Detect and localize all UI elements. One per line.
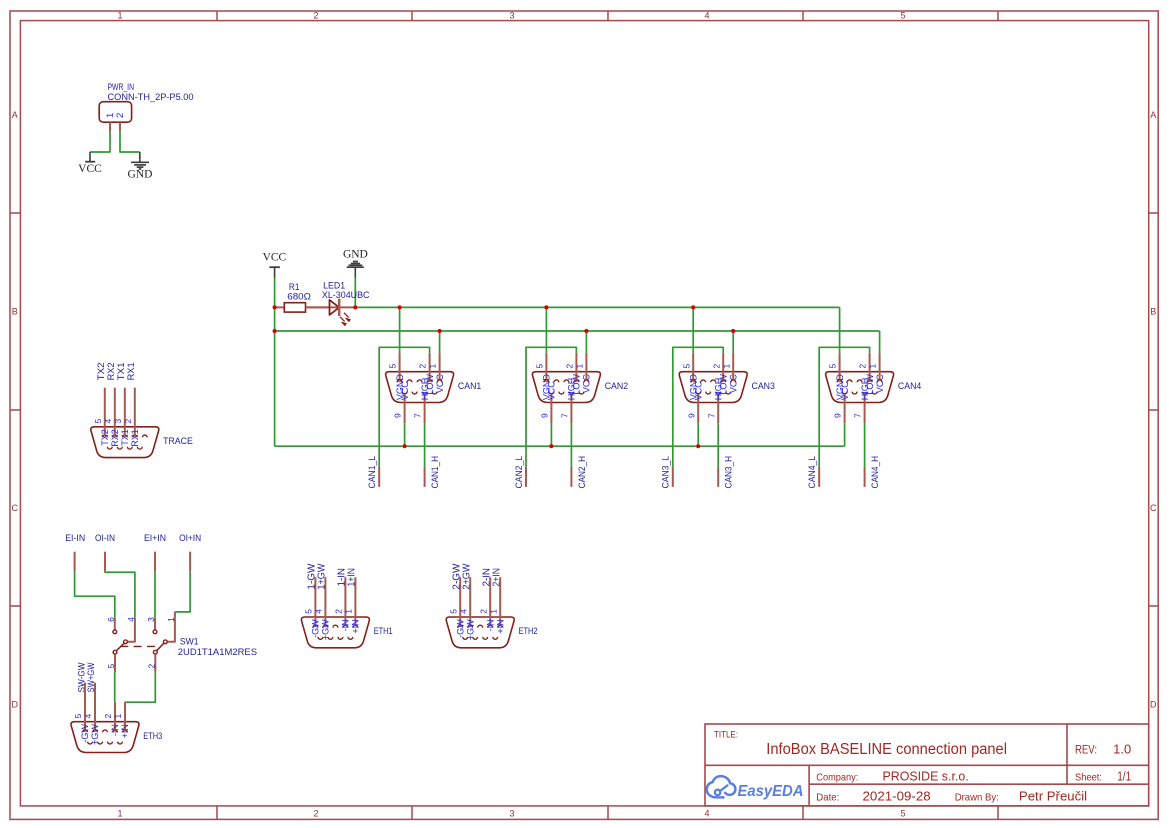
svg-text:4: 4 (458, 609, 468, 614)
svg-text:2UD1T1A1M2RES: 2UD1T1A1M2RES (178, 647, 257, 658)
CAN4 pin 9 VCC (833, 381, 850, 423)
svg-text:9: 9 (833, 413, 843, 418)
svg-text:OI+IN: OI+IN (179, 533, 201, 544)
ETH3 female contact arc top pin 4 (93, 730, 98, 732)
svg-text:CAN4_L: CAN4_L (807, 456, 817, 489)
svg-text:5: 5 (73, 713, 83, 718)
CAN2 pin 9 VCC (540, 381, 557, 423)
wire CAN2_H net (570, 423, 572, 467)
TRACE pin 5 TX2 (93, 388, 110, 446)
svg-text:-GW: -GW (311, 619, 321, 638)
svg-text:3: 3 (146, 617, 156, 622)
CAN1 female contact arc bottom pin 6 (432, 392, 437, 394)
CAN1 female contact arc top pin 4 (407, 380, 412, 382)
svg-text:7: 7 (413, 413, 423, 418)
svg-text:1: 1 (166, 617, 176, 622)
svg-text:PROSIDE s.r.o.: PROSIDE s.r.o. (883, 770, 969, 784)
svg-text:PWR_IN: PWR_IN (108, 82, 135, 92)
net stub CAN3_H (717, 467, 719, 487)
svg-text:1: 1 (488, 609, 498, 614)
junction VCC rail CAN3 (731, 329, 735, 333)
CAN2 female contact arc bottom pin 7 (569, 392, 574, 394)
connector ETH1 D-sub body (301, 617, 392, 648)
svg-text:6: 6 (106, 617, 116, 622)
svg-text:1: 1 (344, 609, 354, 614)
svg-text:C: C (12, 503, 19, 513)
svg-text:GND: GND (343, 249, 368, 261)
CAN4 female contact arc top pin 1 (877, 380, 882, 382)
ETH1 pin 4 +GW (314, 577, 331, 640)
CAN4 female contact arc top pin 4 (847, 380, 852, 382)
svg-text:VCC: VCC (400, 381, 410, 401)
svg-text:B: B (1150, 307, 1156, 317)
CAN4 pin 1 VCC (868, 353, 885, 393)
CAN2 female contact arc top pin 4 (554, 380, 559, 382)
junction LED cathode GND (353, 305, 357, 309)
svg-text:VCC: VCC (840, 381, 850, 401)
svg-text:1/1: 1/1 (1117, 770, 1131, 784)
TRACE pin 4 RX2 (103, 388, 120, 447)
svg-text:CAN1_L: CAN1_L (367, 456, 377, 489)
svg-text:-IN: -IN (341, 619, 351, 631)
svg-text:VCC: VCC (728, 374, 738, 394)
net stub EI-IN (74, 552, 76, 572)
CAN2 pin 7 HIGH (560, 378, 577, 423)
svg-text:9: 9 (540, 413, 550, 418)
wire GND rail to CAN4 pin5 (839, 307, 841, 352)
ETH1 female contact arc bottom pin 7 (338, 637, 343, 639)
wire OI-IN to SW1 pin4 (105, 571, 135, 618)
SW1 pin 5 (106, 654, 116, 672)
svg-text:9: 9 (686, 413, 696, 418)
svg-text:2: 2 (115, 113, 126, 118)
svg-text:2: 2 (103, 713, 113, 718)
TRACE female contact arc top pin 5 (102, 435, 107, 437)
ETH3 female contact arc bottom pin 8 (98, 742, 103, 744)
svg-text:CAN1_H: CAN1_H (430, 456, 440, 489)
ETH3 female contact arc bottom pin 6 (118, 742, 123, 744)
svg-text:1: 1 (113, 713, 123, 718)
wire EI+IN to SW1 pin3 (154, 571, 156, 618)
svg-text:Petr Přeučil: Petr Přeučil (1019, 789, 1087, 804)
svg-text:HIGH: HIGH (420, 378, 430, 401)
ETH1 female contact arc top pin 4 (323, 625, 328, 627)
connector ETH3 D-sub body (71, 722, 162, 753)
svg-text:1: 1 (868, 363, 878, 368)
wire EI-IN to SW1 pin6 (75, 571, 115, 618)
ETH2 female contact arc top pin 2 (488, 625, 493, 627)
CAN1 female contact arc top pin 1 (437, 380, 442, 382)
TRACE pin 3 TX1 (113, 388, 130, 446)
svg-text:ETH2: ETH2 (519, 626, 538, 637)
svg-text:CONN-TH_2P-P5.00: CONN-TH_2P-P5.00 (108, 92, 194, 102)
CAN4 pin 5 VGND (828, 353, 845, 400)
wire VCC rail to CAN3 pin1 (732, 331, 734, 353)
svg-text:5: 5 (900, 11, 905, 21)
svg-text:2: 2 (478, 609, 488, 614)
TRACE female contact arc top pin 4 (112, 435, 117, 437)
junction GND rail CAN2 (544, 305, 548, 309)
svg-text:VCC: VCC (582, 374, 592, 394)
wire GND rail to CAN2 pin5 (545, 307, 547, 352)
TRACE female contact arc top pin 1 (142, 435, 147, 437)
connector CAN4 D-sub body (826, 372, 922, 403)
net stub CAN2_L (525, 467, 527, 487)
CAN4 female contact arc bottom pin 7 (862, 392, 867, 394)
svg-text:5: 5 (900, 809, 905, 819)
CAN2 pin 1 VCC (575, 353, 592, 393)
EasyEDA logo (707, 776, 804, 800)
svg-text:ETH1: ETH1 (374, 626, 393, 637)
CAN4 female contact arc bottom pin 8 (852, 392, 857, 394)
svg-text:ETH3: ETH3 (143, 731, 162, 742)
wire OI+IN to SW1 pin1 (175, 571, 190, 612)
CAN3 female contact arc bottom pin 7 (716, 392, 721, 394)
svg-text:7: 7 (706, 413, 716, 418)
CAN4 female contact arc top pin 5 (837, 380, 842, 382)
ETH1 female contact arc top pin 2 (343, 625, 348, 627)
svg-text:3: 3 (113, 419, 123, 424)
svg-text:4: 4 (83, 713, 93, 718)
ETH2 female contact arc top pin 1 (498, 625, 503, 627)
svg-text:C: C (1150, 503, 1157, 513)
CAN1 female contact arc top pin 3 (417, 380, 422, 382)
svg-text:-IN: -IN (485, 619, 495, 631)
svg-text:CAN3_L: CAN3_L (661, 456, 671, 489)
connector TRACE D-sub body (91, 427, 193, 458)
CAN3 female contact arc bottom pin 6 (726, 392, 731, 394)
svg-text:4: 4 (704, 11, 709, 21)
junction R1-VCC (273, 305, 277, 309)
TRACE female contact arc bottom pin 7 (127, 447, 132, 449)
svg-text:RX1: RX1 (130, 429, 140, 447)
wire GND rail horizontal (355, 306, 839, 308)
CAN4 pin 2 LOW (858, 353, 875, 395)
wire CAN2_L net (526, 347, 576, 467)
svg-text:+IN: +IN (120, 724, 130, 738)
CAN2 female contact arc top pin 3 (564, 380, 569, 382)
ETH2 female contact arc top pin 5 (458, 625, 463, 627)
CAN1 pin 1 VCC (428, 353, 445, 393)
svg-text:2: 2 (313, 809, 318, 819)
CAN3 pin 5 VGND (681, 353, 698, 400)
ETH2 female contact arc top pin 4 (468, 625, 473, 627)
ETH3 female contact arc top pin 2 (113, 730, 118, 732)
svg-text:CAN4: CAN4 (898, 381, 921, 392)
svg-text:2: 2 (858, 363, 868, 368)
svg-text:VCC: VCC (875, 374, 885, 394)
CAN3 pin 1 VCC (721, 353, 738, 393)
svg-text:1.0: 1.0 (1113, 742, 1131, 756)
CAN2 pin 5 VGND (535, 353, 552, 400)
junction VCC rail CAN2 (584, 329, 588, 333)
ETH2 female contact arc bottom pin 6 (493, 637, 498, 639)
junction VCC rail CAN1 (438, 329, 442, 333)
svg-text:4: 4 (314, 609, 324, 614)
wire PWR_IN pin1 to VCC (90, 131, 110, 152)
ETH2 pin 1 +IN (488, 577, 505, 633)
CAN3 female contact arc bottom pin 8 (706, 392, 711, 394)
wire VCC rail to CAN1 pin1 (439, 331, 441, 353)
wire GND rail to CAN1 pin5 (399, 307, 401, 352)
ground GND at LED (343, 249, 368, 278)
svg-text:2: 2 (334, 609, 344, 614)
svg-text:4: 4 (126, 617, 136, 622)
wire CAN2 pin9 to VCC bottom rail (550, 423, 552, 446)
svg-text:1: 1 (721, 363, 731, 368)
svg-text:-GW: -GW (80, 724, 90, 743)
svg-text:3: 3 (509, 11, 514, 21)
svg-text:HIGH: HIGH (860, 378, 870, 401)
svg-text:2: 2 (123, 419, 133, 424)
svg-text:680Ω: 680Ω (287, 291, 311, 302)
svg-text:+GW: +GW (321, 619, 331, 640)
SW1 pole B moving contact (153, 643, 163, 654)
SW1 pin 2 (147, 654, 157, 673)
CAN4 female contact arc bottom pin 6 (872, 392, 877, 394)
CAN3 pin 7 HIGH (706, 378, 723, 423)
switch SW1 2UD1T1A1M2RES (178, 636, 257, 658)
svg-text:SW1: SW1 (180, 636, 199, 647)
net stub CAN1_L (378, 467, 380, 487)
svg-text:5: 5 (388, 363, 398, 368)
CAN3 female contact arc top pin 1 (731, 380, 736, 382)
net stub CAN3_L (672, 467, 674, 487)
wire CAN3_H net (717, 423, 719, 467)
wire CAN1_L net (379, 347, 429, 467)
svg-text:D: D (12, 700, 19, 710)
wire PWR_IN pin2 to GND (120, 131, 140, 152)
TRACE female contact arc bottom pin 6 (137, 447, 142, 449)
CAN4 female contact arc top pin 2 (867, 380, 872, 382)
junction VCC rail left (273, 329, 277, 333)
CAN2 female contact arc bottom pin 9 (549, 392, 554, 394)
ETH1 female contact arc top pin 1 (353, 625, 358, 627)
wire CAN1_H net (424, 423, 426, 467)
svg-text:+IN: +IN (495, 619, 505, 633)
ETH1 female contact arc top pin 3 (333, 625, 338, 627)
TRACE female contact arc top pin 3 (122, 435, 127, 437)
junction GND rail CAN1 (398, 305, 402, 309)
svg-text:VCC: VCC (547, 381, 557, 401)
wire VCC rail to CAN2 pin1 (585, 331, 587, 353)
title block (705, 724, 1149, 806)
svg-text:CAN3: CAN3 (752, 381, 775, 392)
junction VCC bottom rail CAN1 (403, 444, 407, 448)
net stub CAN2_H (570, 467, 572, 487)
ETH1 female contact arc bottom pin 9 (318, 637, 323, 639)
wire VCC vertical feed (274, 278, 276, 447)
SW1 pin 1 (163, 612, 176, 644)
ETH1 female contact arc bottom pin 6 (348, 637, 353, 639)
svg-text:7: 7 (560, 413, 570, 418)
svg-text:-IN: -IN (110, 724, 120, 736)
svg-text:EasyEDA: EasyEDA (738, 783, 804, 800)
wire CAN3 pin9 to VCC bottom rail (697, 423, 699, 446)
ETH3 female contact arc top pin 3 (103, 730, 108, 732)
svg-text:VCC: VCC (78, 163, 102, 175)
connector CAN2 D-sub body (532, 372, 628, 403)
junction VCC bottom rail CAN2 (549, 444, 553, 448)
SW1 pin 4 (124, 617, 137, 644)
net stub CAN4_L (818, 467, 820, 487)
svg-text:VCC: VCC (435, 374, 445, 394)
connector CAN1 D-sub body (386, 372, 482, 403)
ETH3 pin 1 +IN (113, 702, 130, 738)
svg-text:3: 3 (509, 809, 514, 819)
svg-text:5: 5 (828, 363, 838, 368)
CAN2 female contact arc top pin 2 (574, 380, 579, 382)
svg-text:2: 2 (418, 363, 428, 368)
wire SW1 pin5 to ETH3 pin2 (114, 672, 116, 702)
svg-text:2: 2 (147, 664, 157, 669)
svg-text:4: 4 (103, 419, 113, 424)
ETH2 female contact arc top pin 3 (478, 625, 483, 627)
svg-text:5: 5 (106, 664, 116, 669)
svg-text:HIGH: HIGH (713, 378, 723, 401)
svg-text:EI-IN: EI-IN (65, 533, 85, 544)
wire VCC bottom rail horizontal (275, 445, 845, 447)
svg-text:5: 5 (304, 609, 314, 614)
svg-text:2: 2 (313, 11, 318, 21)
wire GND rail to CAN3 pin5 (692, 307, 694, 352)
svg-text:REV:: REV: (1075, 742, 1097, 756)
svg-text:GND: GND (128, 168, 153, 180)
CAN3 pin 9 VCC (686, 381, 703, 423)
wire VCC rail to CAN4 pin1 (879, 331, 881, 353)
ETH3 pin 5 -GW (73, 683, 90, 743)
svg-text:2: 2 (565, 363, 575, 368)
ETH1 pin 1 +IN (344, 577, 361, 633)
TRACE pin 2 RX1 (123, 388, 140, 447)
ETH2 pin 5 -GW (448, 577, 465, 638)
svg-text:+GW: +GW (465, 619, 475, 640)
CAN1 pin 7 HIGH (413, 378, 430, 423)
svg-text:TITLE:: TITLE: (714, 730, 738, 741)
wire CAN4_L net (819, 347, 869, 467)
svg-text:TRACE: TRACE (163, 436, 193, 446)
CAN4 female contact arc bottom pin 9 (842, 392, 847, 394)
power flag VCC at PWR_IN (78, 152, 102, 175)
net stub CAN1_H (424, 467, 426, 487)
wire CAN3_L net (673, 347, 723, 467)
CAN1 pin 9 VCC (393, 381, 410, 423)
svg-text:1: 1 (117, 809, 122, 819)
ETH2 pin 2 -IN (478, 577, 495, 631)
svg-text:CAN2_H: CAN2_H (577, 456, 587, 489)
SW1 pin 3 (146, 617, 157, 634)
svg-text:TX1: TX1 (120, 429, 130, 446)
CAN1 female contact arc bottom pin 7 (422, 392, 427, 394)
ETH1 female contact arc bottom pin 8 (328, 637, 333, 639)
svg-text:Sheet:: Sheet: (1075, 771, 1102, 783)
ETH3 female contact arc bottom pin 7 (108, 742, 113, 744)
wire CAN4 pin9 to VCC bottom rail (844, 423, 846, 446)
ETH2 female contact arc bottom pin 7 (483, 637, 488, 639)
CAN2 female contact arc bottom pin 8 (559, 392, 564, 394)
svg-text:D: D (1150, 700, 1157, 710)
ETH1 pin 5 -GW (304, 577, 321, 638)
pin 2 of PWR_IN (115, 113, 126, 132)
ETH1 female contact arc top pin 5 (313, 625, 318, 627)
svg-text:B: B (12, 307, 18, 317)
net stub EI+IN (154, 552, 156, 572)
wire GND to LED cathode (354, 278, 356, 308)
resistor R1 680ohm (275, 282, 330, 312)
ETH3 female contact arc bottom pin 9 (88, 742, 93, 744)
TRACE female contact arc bottom pin 9 (107, 447, 112, 449)
svg-text:EI+IN: EI+IN (144, 533, 166, 544)
svg-text:CAN2_L: CAN2_L (514, 456, 524, 489)
net stub OI-IN (104, 552, 106, 572)
junction VCC bottom rail CAN3 (696, 444, 700, 448)
connector CAN3 D-sub body (679, 372, 775, 403)
CAN3 female contact arc top pin 5 (691, 380, 696, 382)
svg-text:CAN4_H: CAN4_H (870, 456, 880, 489)
svg-text:OI-IN: OI-IN (95, 533, 115, 544)
ETH3 pin 4 +GW (83, 683, 100, 745)
junction GND rail CAN3 (691, 305, 695, 309)
net stub CAN4_H (864, 467, 866, 487)
svg-text:5: 5 (448, 609, 458, 614)
svg-text:Date:: Date: (816, 791, 839, 803)
svg-text:1: 1 (428, 363, 438, 368)
LED LED1 XL-304UBC (306, 281, 370, 326)
SW1 pole A moving contact (113, 643, 124, 654)
svg-text:5: 5 (93, 419, 103, 424)
CAN1 female contact arc bottom pin 9 (402, 392, 407, 394)
wire VCC rail horizontal (275, 330, 880, 332)
CAN1 female contact arc bottom pin 8 (412, 392, 417, 394)
svg-text:Company:: Company: (816, 771, 858, 783)
svg-text:A: A (12, 110, 18, 120)
CAN4 female contact arc top pin 3 (857, 380, 862, 382)
TRACE female contact arc top pin 2 (132, 435, 137, 437)
CAN1 female contact arc top pin 2 (427, 380, 432, 382)
CAN3 female contact arc top pin 4 (701, 380, 706, 382)
ETH3 female contact arc top pin 5 (83, 730, 88, 732)
svg-text:2021-09-28: 2021-09-28 (863, 789, 931, 804)
ground GND at PWR_IN (128, 152, 153, 180)
CAN3 female contact arc top pin 2 (721, 380, 726, 382)
svg-text:A: A (1150, 110, 1156, 120)
ETH3 female contact arc top pin 1 (123, 730, 128, 732)
CAN4 pin 7 HIGH (853, 378, 870, 423)
SW1 mechanical link dashed (120, 645, 159, 647)
CAN3 female contact arc top pin 3 (711, 380, 716, 382)
svg-text:5: 5 (681, 363, 691, 368)
power flag VCC main rail (263, 251, 287, 277)
SW1 pin 6 (106, 617, 117, 634)
CAN1 female contact arc top pin 5 (397, 380, 402, 382)
svg-text:4: 4 (704, 809, 709, 819)
svg-text:CAN3_H: CAN3_H (724, 456, 734, 489)
CAN2 female contact arc top pin 5 (544, 380, 549, 382)
CAN1 pin 2 LOW (418, 353, 435, 395)
CAN2 female contact arc bottom pin 6 (579, 392, 584, 394)
ETH2 pin 4 +GW (458, 577, 475, 640)
wire CAN4_H net (864, 423, 866, 467)
pin 1 of PWR_IN (105, 113, 116, 132)
ETH2 female contact arc bottom pin 9 (463, 637, 468, 639)
ETH1 pin 2 -IN (334, 577, 351, 631)
TRACE female contact arc bottom pin 8 (117, 447, 122, 449)
CAN2 female contact arc top pin 1 (584, 380, 589, 382)
svg-text:CAN1: CAN1 (458, 381, 481, 392)
svg-text:VCC: VCC (693, 381, 703, 401)
svg-text:InfoBox BASELINE connection pa: InfoBox BASELINE connection panel (766, 741, 1007, 758)
CAN2 pin 2 LOW (565, 353, 582, 395)
